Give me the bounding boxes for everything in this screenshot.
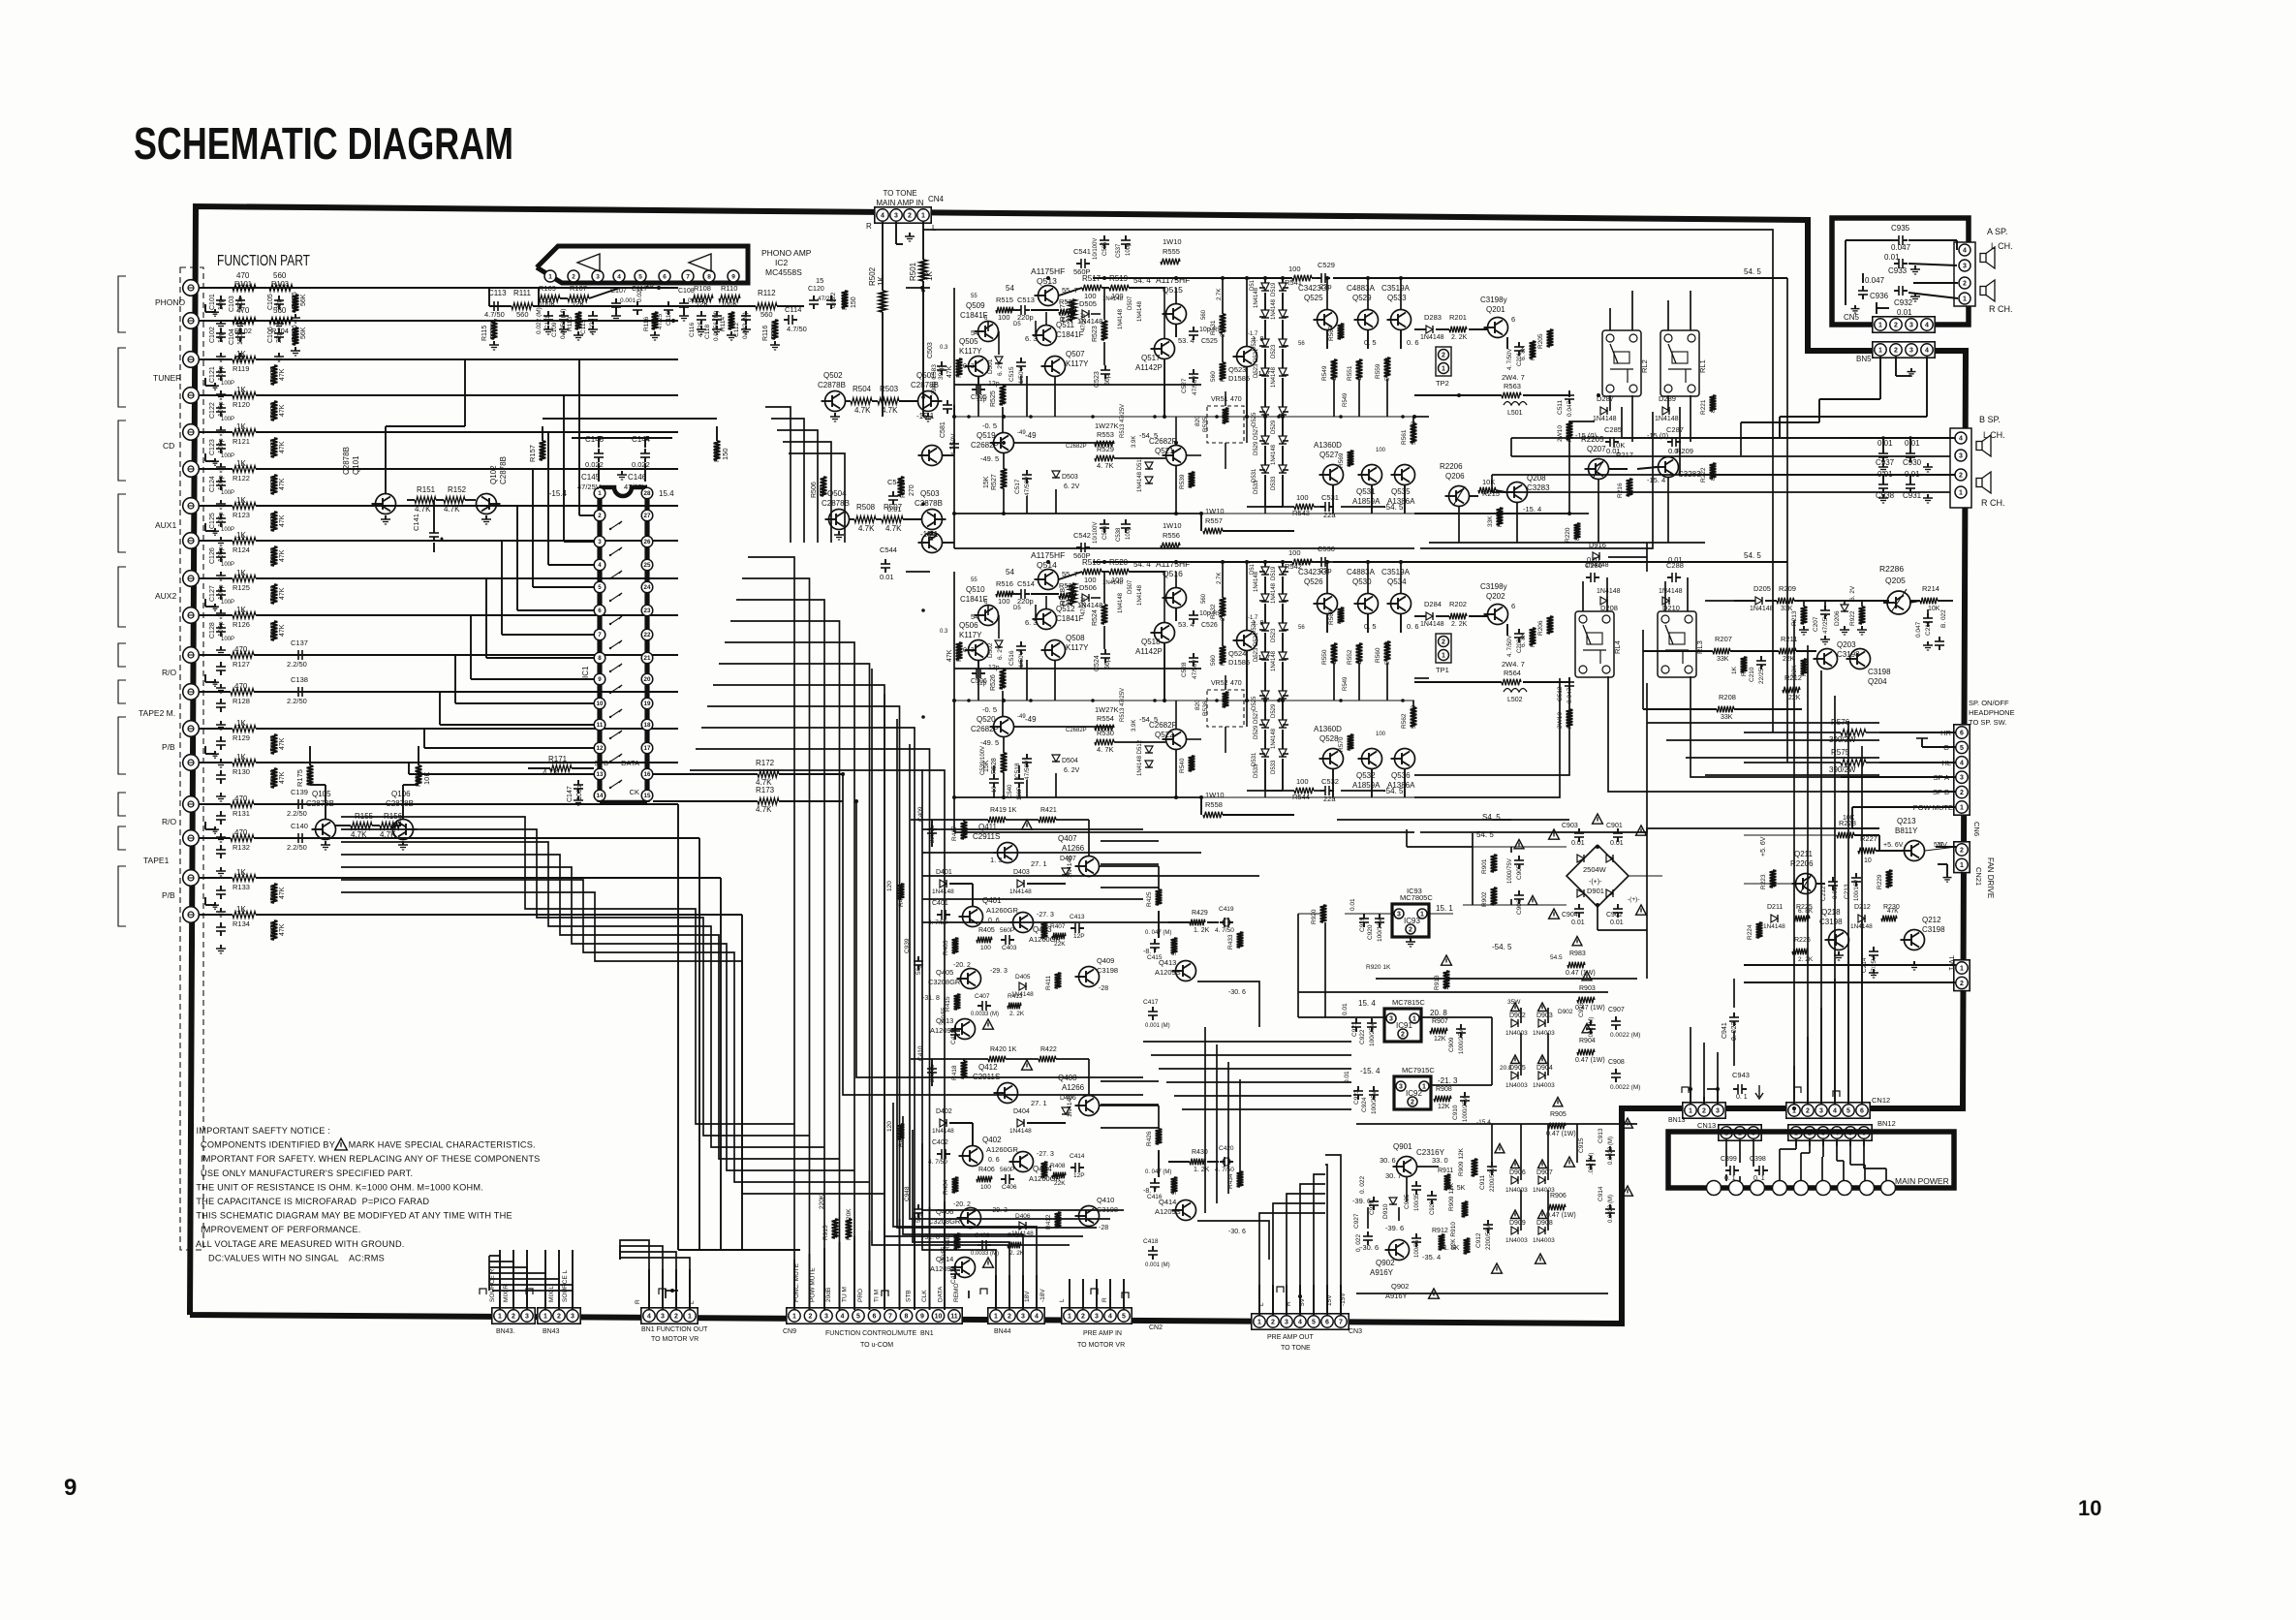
svg-text:1N4148 D512: 1N4148 D512 [1137, 739, 1143, 776]
svg-text:CD: CD [163, 441, 174, 451]
ground BN5 [1910, 368, 1912, 372]
transistor Q203 C3198 [1817, 649, 1838, 670]
svg-text:55: 55 [971, 294, 977, 299]
resistor R223 22K [1770, 870, 1777, 888]
svg-text:470: 470 [1756, 927, 1763, 938]
svg-text:1N4148: 1N4148 [932, 888, 954, 895]
svg-text:12P: 12P [1073, 1172, 1085, 1179]
diode ladder D517-6 [1261, 465, 1269, 473]
svg-text:C398: C398 [1750, 1156, 1766, 1163]
svg-text:C910: C910 [1452, 1105, 1459, 1120]
svg-text:7: 7 [888, 1314, 892, 1321]
node [952, 795, 956, 799]
svg-text:3: 3 [1397, 912, 1401, 919]
node [1221, 276, 1225, 280]
wire riser BN43 [489, 1262, 513, 1310]
capacitor C207 47/25V [1824, 606, 1826, 610]
svg-text:Q525: Q525 [1304, 294, 1323, 302]
wire mid bus [922, 898, 1143, 900]
wire filter bus [1101, 1104, 1159, 1106]
resistor R510 47K [956, 642, 963, 660]
svg-text:150: 150 [851, 296, 857, 308]
svg-text:0.47 (1W): 0.47 (1W) [1546, 1131, 1576, 1137]
node [1263, 560, 1267, 564]
resistor R175 10K [307, 765, 314, 785]
terminal block A [1954, 242, 1975, 306]
transistor Q205 [1887, 591, 1910, 614]
svg-text:R560: R560 [1375, 647, 1381, 663]
svg-text:47/50V: 47/50V [1081, 597, 1087, 615]
svg-text:R131: R131 [233, 809, 250, 818]
svg-text:0.47 (1W): 0.47 (1W) [1575, 1057, 1605, 1064]
svg-text:Q506: Q506 [959, 621, 978, 630]
wire bus to IC1 [291, 762, 409, 763]
svg-text:IC2: IC2 [775, 258, 789, 267]
svg-text:C517: C517 [1014, 479, 1021, 494]
wire mid bus [922, 852, 1201, 854]
svg-text:2. 2K: 2. 2K [1451, 621, 1468, 628]
svg-text:560: 560 [1201, 593, 1207, 604]
wire amp feed lower [906, 571, 930, 573]
svg-text:30. 7: 30. 7 [1385, 1171, 1402, 1180]
svg-text:1K: 1K [236, 868, 246, 877]
wire ladder [1264, 278, 1266, 283]
svg-text:C213: C213 [1844, 884, 1850, 899]
svg-text:10: 10 [1348, 458, 1354, 466]
bracket [118, 567, 126, 627]
svg-text:D519: D519 [1271, 282, 1277, 296]
svg-text:0. 5: 0. 5 [1364, 622, 1377, 631]
svg-text:4.7/50: 4.7/50 [484, 310, 505, 319]
terminal block B [1950, 428, 1971, 508]
wire bus to IC1 [291, 431, 548, 433]
resistor R916 220K [846, 1219, 853, 1238]
svg-text:22a: 22a [1323, 511, 1336, 519]
transistor Q508 K117Y [1045, 640, 1066, 661]
node [1002, 415, 1006, 419]
svg-text:R151: R151 [417, 485, 436, 494]
wire [993, 765, 995, 773]
transistor Q536 A1386A [1395, 749, 1415, 769]
svg-text:R121: R121 [233, 437, 250, 446]
wire [1006, 309, 1017, 311]
svg-text:2.2/50: 2.2/50 [287, 697, 307, 705]
wire CN12 feed [1847, 721, 1849, 1105]
svg-text:C901: C901 [1606, 823, 1623, 829]
svg-text:-54. 5: -54. 5 [1383, 503, 1404, 512]
capacitor C512 0.047 [1568, 677, 1570, 682]
svg-text:C516: C516 [1008, 650, 1015, 666]
warning triangle [1536, 1254, 1546, 1263]
svg-text:1W10: 1W10 [1205, 507, 1225, 515]
resistor R403 22K [952, 938, 959, 953]
svg-text:0.01: 0.01 [1571, 840, 1585, 847]
diode ladder D518-4 [1261, 691, 1269, 699]
resistor R540 100 [1189, 756, 1195, 771]
svg-text:C3423O: C3423O [1298, 284, 1327, 293]
wire relay low top [1582, 581, 1584, 611]
wire riser CN3 [1314, 1174, 1325, 1316]
svg-text:560P: 560P [1073, 551, 1091, 560]
node [1281, 415, 1285, 419]
svg-text:100: 100 [1376, 732, 1386, 737]
svg-text:COMPONENTS IDENTIFIED BY M: COMPONENTS IDENTIFIED BY MARK HAVE SPECI… [201, 1140, 536, 1150]
svg-text:USE ONLY MANUFACTURER'S SPECIF: USE ONLY MANUFACTURER'S SPECIFIED PART. [201, 1168, 413, 1178]
wire bn12 feed [1822, 1139, 1824, 1146]
wire CN4 L [923, 230, 1773, 567]
capacitor C114 4.7/50 [784, 319, 789, 321]
svg-text:D403: D403 [1013, 869, 1030, 876]
svg-text:4.7/50: 4.7/50 [787, 325, 807, 333]
wire riser BN44 [893, 1103, 1037, 1310]
wire centre vert [1216, 1044, 1218, 1203]
svg-text:-(+)-: -(+)- [1628, 896, 1639, 903]
svg-text:C101: C101 [209, 294, 216, 310]
svg-text:5: 5 [598, 584, 602, 591]
node [657, 286, 661, 290]
svg-text:10: 10 [1338, 615, 1345, 623]
capacitor C123 100p [220, 440, 222, 445]
svg-text:C503: C503 [927, 342, 934, 358]
svg-text:15. 1: 15. 1 [1436, 904, 1453, 913]
resistor R158 150 [714, 441, 721, 460]
wire q519 join [1003, 453, 1005, 469]
svg-text:Q520: Q520 [977, 715, 996, 724]
svg-text:R141: R141 [270, 585, 277, 602]
diode D905 1N4003 [1511, 1072, 1518, 1079]
svg-text:220K: 220K [490, 323, 497, 339]
diode ladder2 D520-4 [1279, 691, 1287, 699]
border outer frame [190, 206, 1966, 1324]
wire riser [648, 1269, 650, 1310]
wire [1175, 325, 1177, 337]
svg-text:C147: C147 [567, 786, 574, 802]
wire ladder [1264, 562, 1266, 567]
wire riser [544, 1250, 546, 1310]
wire channel vert4 [1222, 562, 1224, 598]
svg-text:2.2/50: 2.2/50 [287, 809, 307, 818]
svg-text:TAPE2 M.: TAPE2 M. [139, 708, 175, 718]
svg-text:D284: D284 [1424, 600, 1442, 608]
svg-text:1N4148: 1N4148 [1420, 621, 1444, 628]
resistor R176 10K [416, 765, 422, 785]
bracket [118, 717, 126, 774]
diode D904 1N4003 [1538, 1072, 1545, 1079]
svg-text:8: 8 [905, 1314, 909, 1321]
capacitor C104 150p [239, 328, 241, 333]
svg-text:100: 100 [980, 945, 991, 951]
svg-text:Q507: Q507 [1066, 350, 1085, 358]
svg-text:BN43: BN43 [543, 1328, 560, 1335]
ground stub [204, 674, 206, 682]
resistor R213 10K [1801, 607, 1808, 624]
svg-text:R558: R558 [1205, 800, 1223, 809]
svg-text:55: 55 [971, 577, 977, 583]
svg-text:C3198: C3198 [1868, 668, 1891, 676]
wire trunk CN9 [725, 642, 854, 1310]
svg-text:R526: R526 [990, 674, 997, 691]
svg-text:C2682P: C2682P [971, 441, 999, 450]
svg-text:R534: R534 [1220, 650, 1226, 666]
svg-text:C921: C921 [1351, 1021, 1358, 1037]
svg-text:2: 2 [1409, 927, 1412, 934]
svg-text:-49: -49 [1025, 715, 1037, 724]
wire [1175, 608, 1177, 621]
wire C941 link [1733, 979, 1735, 1008]
wire centre vert [1239, 1079, 1241, 1184]
jumper [1091, 1289, 1098, 1294]
svg-text:C113: C113 [488, 289, 507, 297]
svg-text:Q519: Q519 [977, 431, 996, 440]
input jack J1 [183, 280, 200, 296]
node [1002, 512, 1006, 515]
capacitor C925 100/35 [1415, 1181, 1417, 1186]
svg-text:C399: C399 [1721, 1156, 1737, 1163]
svg-text:D523: D523 [1271, 628, 1277, 642]
wire mid rail [954, 700, 1414, 701]
capacitor C105 22p [278, 296, 280, 300]
wire psu mid [1510, 847, 1512, 853]
svg-text:4: 4 [881, 213, 884, 220]
wire out to RL2 [1414, 421, 1595, 514]
svg-text:2: 2 [908, 213, 912, 220]
node [1281, 699, 1285, 702]
svg-text:C420: C420 [1219, 1145, 1234, 1152]
svg-text:A1175HF: A1175HF [1031, 550, 1065, 560]
svg-text:FUNCTION CONTROL/MUTE BN1: FUNCTION CONTROL/MUTE BN1 [825, 1330, 934, 1337]
svg-text:100: 100 [1189, 477, 1195, 487]
input jack J10 [183, 607, 200, 624]
capacitor C506 12p [972, 672, 977, 674]
resistor R216b 33K [1627, 479, 1633, 496]
node [645, 436, 649, 440]
svg-text:12K: 12K [1438, 1104, 1450, 1110]
svg-text:3: 3 [824, 1314, 828, 1321]
svg-text:C540: C540 [1008, 784, 1013, 798]
node [952, 415, 956, 419]
svg-text:1: 1 [688, 1314, 692, 1321]
svg-text:0.022: 0.022 [636, 286, 643, 302]
svg-text:Q203: Q203 [1837, 640, 1856, 649]
transistor Q512 C1841F [1037, 609, 1057, 630]
svg-text:R420 1K: R420 1K [990, 1046, 1017, 1053]
svg-text:Q530: Q530 [1352, 577, 1372, 586]
wire [1822, 1139, 1824, 1157]
svg-text:1N4148: 1N4148 [1593, 416, 1617, 422]
wire [1795, 1139, 1797, 1149]
resistor R570 10 [1348, 734, 1354, 750]
wire bsp feed 2 [1511, 455, 1950, 457]
node [921, 289, 925, 293]
pin 20 IC1 [641, 673, 653, 685]
wire riser [929, 1207, 931, 1310]
ground stub [204, 304, 206, 312]
node [921, 395, 925, 399]
svg-text:22K: 22K [1054, 1180, 1066, 1187]
svg-text:100P: 100P [221, 637, 234, 642]
resistor R229 2.2K [1886, 870, 1893, 888]
svg-text:0. 1: 0. 1 [1736, 1094, 1748, 1101]
svg-text:R207: R207 [1715, 635, 1732, 643]
bracket [118, 494, 126, 552]
node [952, 699, 956, 702]
svg-text:100: 100 [1376, 448, 1386, 453]
input jack J11 [183, 647, 200, 664]
capacitor C102 10p [220, 328, 222, 333]
bracket [118, 866, 126, 926]
svg-text:D523 D521: D523 D521 [1254, 348, 1259, 378]
svg-text:2. 2K: 2. 2K [1798, 956, 1814, 963]
wire [1414, 394, 1502, 396]
svg-text:R912: R912 [1432, 1228, 1448, 1234]
svg-text:-15.4: -15.4 [1476, 1119, 1491, 1126]
svg-text:C903: C903 [1562, 823, 1578, 829]
svg-text:R907: R907 [1432, 1018, 1448, 1025]
wire riaa [489, 305, 512, 307]
svg-text:2: 2 [557, 1314, 561, 1321]
wire filter bus [1101, 1127, 1159, 1129]
wire [1834, 979, 1836, 1105]
svg-text:R921: R921 [1801, 661, 1808, 676]
capacitor C122 100p [220, 403, 222, 408]
wire [1332, 485, 1334, 514]
node [671, 319, 675, 323]
svg-text:47K: 47K [279, 549, 286, 562]
wire [199, 394, 233, 396]
svg-text:1K: 1K [236, 905, 246, 914]
node [1325, 276, 1329, 280]
svg-text:2: 2 [1959, 473, 1963, 480]
wire [1100, 865, 1159, 867]
svg-text:R567: R567 [1328, 326, 1335, 341]
svg-text:R539: R539 [1179, 474, 1186, 489]
svg-text:7: 7 [686, 273, 690, 280]
wire d916 [1608, 556, 1647, 558]
svg-text:D404: D404 [1013, 1108, 1030, 1115]
svg-text:C207: C207 [1813, 616, 1819, 632]
node [1399, 560, 1403, 564]
svg-text:C3198: C3198 [1922, 925, 1945, 934]
resistor R502 1K [880, 291, 886, 312]
svg-text:1N4148: 1N4148 [1067, 856, 1073, 878]
wire channel vert2 [977, 377, 979, 417]
diode ladder D517-2 [1261, 339, 1269, 347]
svg-text:R236: R236 [1530, 632, 1536, 647]
svg-text:26: 26 [644, 539, 651, 545]
node [1457, 393, 1461, 397]
main power terminal [1860, 1181, 1875, 1196]
wire staircase [341, 880, 870, 1182]
resistor R549 1W680 [1331, 359, 1338, 379]
wire relay bottom [1609, 395, 1611, 411]
svg-text:K117Y: K117Y [1066, 359, 1089, 368]
svg-text:IMPROVEMENT OF PERFORMANCE.: IMPROVEMENT OF PERFORMANCE. [201, 1225, 361, 1234]
wire ladder2 [1282, 562, 1284, 567]
svg-text:Q402: Q402 [982, 1136, 1002, 1144]
svg-text:10/100V: 10/100V [1093, 238, 1099, 260]
resistor R115 220K [491, 320, 498, 339]
svg-text:1: 1 [1420, 912, 1424, 919]
svg-text:2: 2 [1894, 323, 1898, 329]
svg-text:2.2/50: 2.2/50 [287, 843, 307, 852]
svg-text:1: 1 [1960, 966, 1964, 973]
svg-text:C920: C920 [1367, 924, 1374, 940]
svg-text:4. 7/50V: 4. 7/50V [1507, 636, 1513, 657]
wire [1836, 1139, 1838, 1161]
svg-text:4. 7K: 4. 7K [1097, 745, 1114, 754]
svg-text:10: 10 [1338, 331, 1345, 339]
svg-text:100/35: 100/35 [1414, 1193, 1420, 1211]
wire q521 join [1175, 466, 1177, 514]
svg-text:-30. 6: -30. 6 [1228, 1229, 1246, 1235]
node [598, 436, 602, 440]
svg-text:C2878B: C2878B [915, 499, 943, 508]
svg-text:-27. 3: -27. 3 [1037, 912, 1054, 919]
resistor R534 560 [1220, 646, 1226, 664]
capacitor C138b [220, 699, 222, 703]
wire riser CN3 [1325, 1155, 1341, 1316]
wire [931, 820, 933, 847]
connector CN4 [875, 207, 931, 223]
svg-text:11: 11 [597, 722, 604, 729]
svg-text:54. 5: 54. 5 [1744, 267, 1761, 276]
svg-text:30. 6: 30. 6 [1380, 1156, 1396, 1165]
wire [199, 540, 233, 542]
svg-text:Q503: Q503 [920, 489, 940, 498]
transistor Q513 A1175HF [1039, 286, 1059, 306]
svg-text:-8. 7: -8. 7 [1143, 949, 1157, 955]
pin 7 IC2 [682, 270, 694, 282]
wire riser [1069, 1279, 1070, 1310]
transistor Q504 C2878B [829, 510, 850, 530]
svg-text:D907: D907 [1536, 1169, 1553, 1176]
svg-text:R411: R411 [1045, 976, 1052, 990]
svg-text:D507: D507 [1128, 296, 1133, 310]
resistor R533 560 [1220, 362, 1226, 380]
input jack J6 [183, 461, 200, 478]
capacitor C121 100p [220, 367, 222, 372]
wire [1938, 863, 1947, 865]
svg-text:A1209S: A1209S [930, 1264, 956, 1273]
node [1153, 415, 1157, 419]
svg-text:1: 1 [1689, 1108, 1692, 1115]
svg-text:1: 1 [1257, 1320, 1261, 1326]
svg-text:15.4: 15.4 [659, 489, 674, 498]
svg-text:2: 2 [809, 1314, 813, 1321]
pin 23 IC1 [641, 605, 653, 616]
svg-text:47K: 47K [279, 368, 286, 381]
svg-text:R134: R134 [233, 919, 250, 928]
svg-text:120: 120 [886, 1121, 893, 1132]
svg-text:POW MUTE: POW MUTE [810, 1267, 817, 1302]
node [1002, 699, 1006, 702]
capacitor C118 0.0056(M) [716, 311, 718, 316]
svg-text:1: 1 [498, 1314, 502, 1321]
connector BN43 A [492, 1308, 535, 1324]
svg-text:CN9: CN9 [783, 1328, 796, 1335]
svg-text:R559: R559 [1375, 363, 1381, 379]
svg-text:54. 5: 54. 5 [1744, 551, 1761, 560]
wire drop [789, 453, 845, 543]
svg-text:-54. 5: -54. 5 [1383, 787, 1404, 795]
svg-text:R549: R549 [1343, 676, 1349, 691]
svg-text:470: 470 [236, 306, 250, 315]
svg-text:A1209S: A1209S [930, 1026, 956, 1035]
svg-text:C145: C145 [581, 473, 601, 482]
resistor R145 47K [271, 734, 278, 754]
wire [1414, 681, 1502, 683]
resistor R137 47K [271, 438, 278, 457]
